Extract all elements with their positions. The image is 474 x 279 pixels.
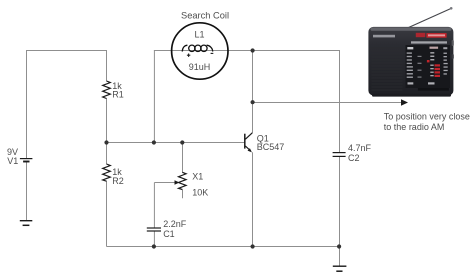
svg-text:C1: C1	[163, 229, 175, 239]
svg-text:X1: X1	[192, 172, 203, 182]
svg-text:R2: R2	[112, 176, 124, 186]
svg-text:4.7nF: 4.7nF	[348, 143, 372, 153]
svg-text:2.2nF: 2.2nF	[163, 219, 187, 229]
svg-text:C2: C2	[348, 153, 360, 163]
svg-text:10K: 10K	[192, 187, 208, 197]
svg-text:Search Coil: Search Coil	[181, 11, 229, 21]
svg-text:R1: R1	[112, 89, 124, 99]
svg-text:V1: V1	[7, 156, 18, 166]
svg-text:91uH: 91uH	[189, 62, 211, 72]
svg-text:to the radio AM: to the radio AM	[384, 122, 445, 132]
svg-text:L1: L1	[195, 30, 205, 40]
svg-text:To position very close: To position very close	[384, 111, 470, 121]
svg-text:BC547: BC547	[257, 142, 285, 152]
